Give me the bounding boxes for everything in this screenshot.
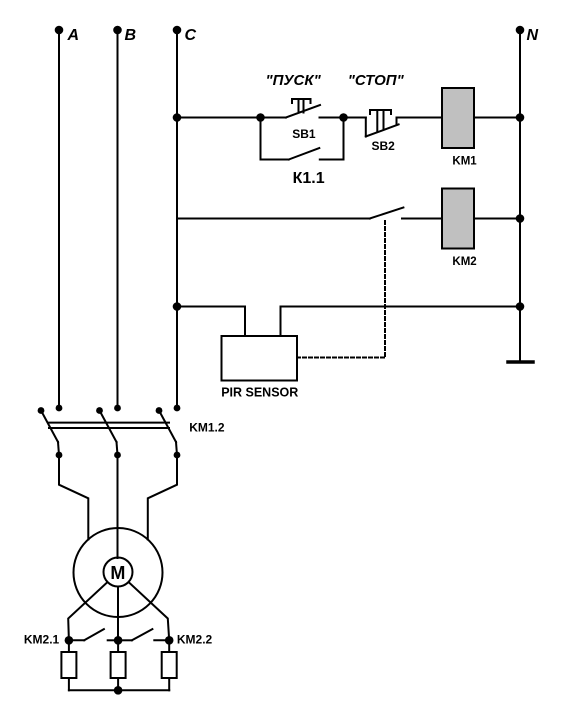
coil KM2 (442, 189, 477, 269)
svg-text:KM1: KM1 (452, 156, 477, 168)
contact KM2.2 (114, 629, 213, 646)
svg-text:"ПУСК": "ПУСК" (266, 72, 322, 89)
resistor R3 (162, 640, 177, 690)
wire KM1 to N (474, 117, 520, 119)
wire motor feed B (117, 455, 119, 558)
wire bottom bus (69, 689, 169, 691)
wire neutral N vertical (519, 30, 521, 361)
svg-text:SB2: SB2 (372, 139, 396, 153)
svg-text:N: N (527, 27, 539, 44)
contact KM1.2 pole A (38, 405, 63, 459)
node B terminal (113, 26, 136, 44)
svg-text:KM2.1: KM2.1 (24, 632, 60, 646)
pushbutton SB2 (344, 110, 443, 153)
svg-text:KM1.2: KM1.2 (189, 420, 225, 434)
junction rung2-N (516, 214, 525, 223)
svg-text:M: M (110, 563, 125, 583)
wire rung2 left (177, 218, 370, 220)
junction rung1-C (173, 113, 182, 122)
wire PIR left lead (244, 307, 246, 337)
junction bottom bus (114, 686, 123, 695)
svg-text:SB1: SB1 (292, 127, 316, 141)
contact KM2 rung (PIR controlled) (370, 208, 442, 219)
svg-text:PIR SENSOR: PIR SENSOR (221, 386, 298, 400)
contact KM2.1 (24, 629, 118, 646)
motor M (74, 528, 163, 617)
svg-text:A: A (67, 27, 80, 44)
svg-text:C: C (185, 27, 197, 44)
wire motor feed C (148, 455, 177, 539)
junction rung1-N (516, 113, 525, 122)
pushbutton SB1 (261, 99, 344, 141)
junction SB1 right (339, 113, 348, 122)
resistor R1 (61, 640, 76, 690)
contact K1.1 (latch in parallel with SB1) (261, 118, 344, 187)
svg-text:К1.1: К1.1 (293, 170, 325, 187)
PIR sensor box (221, 336, 298, 400)
contact KM1.2 pole C (156, 405, 181, 459)
KM1.2 linkage bars (49, 423, 169, 428)
wire rung3 right (281, 306, 521, 308)
coil KM1 (442, 88, 477, 168)
wire motor out right (129, 583, 169, 641)
node A terminal (55, 26, 79, 44)
wire rung1 left (177, 117, 261, 119)
junction rung3-C (173, 302, 182, 311)
wire motor out left (68, 583, 107, 641)
node N terminal (516, 26, 539, 44)
junction rung3-N (516, 302, 525, 311)
svg-text:"СТОП": "СТОП" (348, 72, 405, 89)
contact KM1.2 pole B (96, 405, 121, 459)
node C terminal (173, 26, 197, 44)
wire phase C vertical (176, 30, 178, 408)
svg-text:KM2.2: KM2.2 (177, 632, 213, 646)
wire PIR right lead (280, 307, 282, 337)
svg-text:KM2: KM2 (452, 256, 476, 268)
wire dashed control link (297, 221, 385, 358)
wire rung3 left (177, 306, 245, 308)
junction SB1 left (256, 113, 265, 122)
wire motor feed A (59, 455, 88, 539)
resistor R2 (111, 640, 126, 690)
ground (508, 360, 533, 364)
wire motor out middle (117, 587, 119, 641)
wire phase B vertical (117, 30, 119, 408)
wire KM2 to N (474, 218, 520, 220)
wire phase A vertical (58, 30, 60, 408)
svg-text:B: B (125, 27, 137, 44)
